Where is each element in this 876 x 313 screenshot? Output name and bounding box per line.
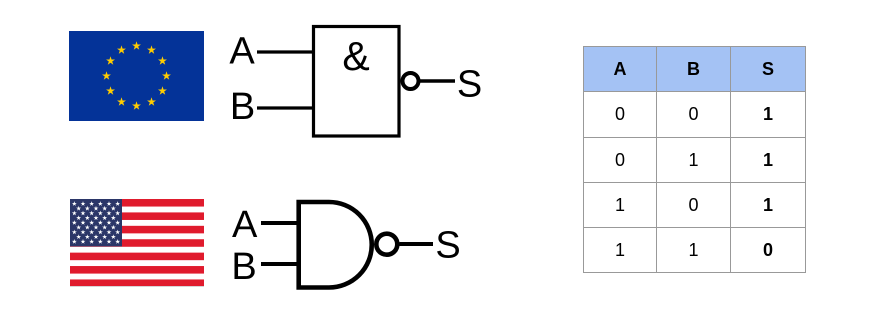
US stripes bbox=[70, 199, 204, 287]
wire B (bottom) bbox=[261, 262, 299, 266]
US canton bbox=[70, 199, 122, 246]
NAND gate U2 (ANSI D-shape) bbox=[299, 202, 372, 288]
EU flag bbox=[69, 31, 204, 121]
svg-text:A: A bbox=[229, 31, 255, 73]
truth table bbox=[583, 46, 806, 273]
wire A (bottom) bbox=[261, 221, 299, 225]
NAND gate U1 (IEC rectangle) bbox=[314, 27, 400, 137]
EU flag field bbox=[69, 31, 204, 121]
svg-text:B: B bbox=[230, 86, 255, 128]
svg-text:&: & bbox=[342, 33, 369, 79]
wire B (top) bbox=[257, 106, 313, 109]
flag photo soft shadow bbox=[70, 286, 204, 287]
US stars bbox=[72, 201, 120, 244]
svg-text:S: S bbox=[435, 224, 460, 266]
inversion bubble (top gate) bbox=[403, 73, 419, 89]
wire S (bottom) bbox=[400, 242, 434, 246]
svg-text:A: A bbox=[232, 204, 258, 246]
US flag field bbox=[70, 199, 204, 287]
svg-text:B: B bbox=[231, 246, 256, 288]
wire A (top) bbox=[257, 50, 313, 53]
inversion bubble (bottom gate) bbox=[376, 234, 397, 255]
EU stars ring bbox=[102, 41, 171, 110]
wire S (top) bbox=[420, 79, 455, 82]
US flag bbox=[70, 199, 204, 287]
svg-text:S: S bbox=[457, 64, 482, 106]
